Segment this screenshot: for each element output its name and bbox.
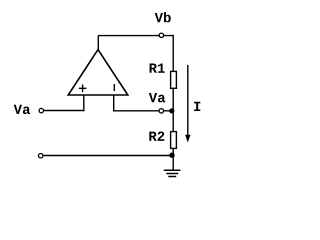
svg-text:I: I bbox=[193, 100, 201, 116]
svg-text:Va: Va bbox=[14, 103, 31, 119]
junction dot at node Va bbox=[169, 108, 174, 113]
wire: plus input drop and horizontal to Va terminal (left) bbox=[41, 95, 84, 111]
wire: op-amp output up from apex bbox=[97, 36, 99, 51]
wire: rail R2 bottom to ground bbox=[172, 149, 174, 170]
op-amp minus input mark bbox=[113, 84, 115, 91]
svg-text:R2: R2 bbox=[148, 130, 165, 146]
wire: bottom return from left terminal to ground junction bbox=[43, 155, 172, 157]
node Va terminal circle (right) bbox=[159, 109, 163, 113]
node Vb terminal circle bbox=[159, 33, 163, 37]
op-amp plus input mark bbox=[79, 85, 87, 93]
svg-text:Va: Va bbox=[149, 91, 166, 107]
wire: rail R1 bottom to R2 top bbox=[172, 89, 174, 132]
op-amp U1 bbox=[68, 50, 128, 95]
current arrow I bbox=[187, 65, 189, 136]
svg-text:Vb: Vb bbox=[155, 11, 172, 27]
svg-text:R1: R1 bbox=[149, 62, 166, 78]
resistor R1 bbox=[171, 71, 177, 88]
wire: minus input drop and horizontal to node Va bbox=[114, 95, 172, 111]
wire: top horizontal to Vb and right rail bbox=[98, 35, 174, 37]
node Va terminal circle (left) bbox=[39, 108, 43, 112]
node terminal circle (bottom left) bbox=[39, 154, 43, 158]
wire: right rail from corner down to R1 bbox=[172, 35, 174, 72]
ground bbox=[164, 170, 181, 176]
junction dot at bottom rail bbox=[169, 153, 174, 158]
resistor R2 bbox=[171, 132, 177, 149]
